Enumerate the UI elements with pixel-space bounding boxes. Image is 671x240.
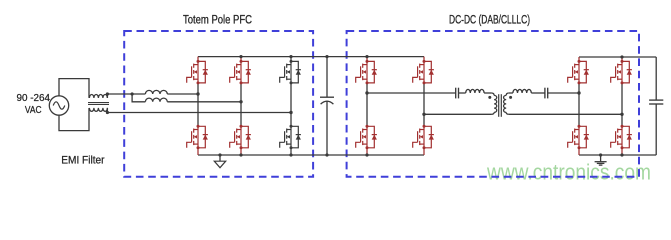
wire: HV DC+ bus — [198, 56, 424, 58]
wire: DC-link branch — [326, 57, 328, 155]
transistor Q7/Q8 (DAB primary leg1) low-side MOSFET — [356, 125, 377, 150]
capacitor C2 (resonant, primary) — [456, 88, 459, 99]
node: Q13/Q14 (secondary leg2) switch-node junction — [620, 113, 623, 116]
capacitor C1 (DC link) — [320, 97, 334, 104]
wire: Q11/Q12 (secondary leg1) drain stub — [578, 57, 580, 155]
transistor Q3/Q4 (PFC leg2) high-side MOSFET — [230, 60, 251, 85]
transistor Q9/Q10 (DAB primary leg2) high-side MOSFET — [413, 60, 434, 85]
Totem Pole PFC enclosure (dashed) — [124, 31, 313, 177]
wire: neutral line to PFC leg3 switch node — [107, 112, 291, 114]
transistor Q13/Q14 (secondary leg2) high-side MOSFET — [611, 60, 632, 85]
svg-text:Totem Pole PFC: Totem Pole PFC — [183, 12, 252, 26]
capacitor C3 (resonant, secondary) — [545, 88, 548, 99]
node: DC- bus junction DAB leg1 — [365, 153, 368, 156]
wire: line input to boost inductors — [107, 93, 145, 95]
common-mode choke core — [88, 103, 109, 105]
node: output DC+ junction leg2 — [620, 55, 623, 58]
svg-text:DC-DC (DAB/CLLLC): DC-DC (DAB/CLLLC) — [449, 12, 530, 26]
node: Q5/Q6 (PFC line leg) switch-node junction — [289, 111, 292, 114]
node: C1 bottom junction — [325, 153, 328, 156]
wire: Q1/Q2 (PFC leg1) drain stub — [197, 57, 199, 155]
transformer T1 core — [499, 94, 502, 117]
node: DC+ bus junction leg2 — [239, 55, 242, 58]
transistor Q3/Q4 (PFC leg2) low-side MOSFET — [230, 125, 251, 150]
node: choke top output — [106, 92, 109, 95]
wire: Q7/Q8 (DAB primary leg1) drain stub — [366, 57, 368, 155]
common-mode choke L1 top winding — [89, 94, 107, 98]
transistor Q9/Q10 (DAB primary leg2) low-side MOSFET — [413, 125, 434, 150]
wire: output DC+ bus — [579, 56, 656, 58]
svg-text:VAC: VAC — [25, 105, 42, 116]
transistor Q5/Q6 (PFC line leg) low-side MOSFET — [280, 125, 301, 150]
svg-text:90 -264: 90 -264 — [17, 93, 51, 104]
wire: Q13/Q14 (secondary leg2) drain stub — [621, 57, 623, 155]
ground (PFC DC- bus) — [214, 153, 225, 167]
node: C1 top junction — [325, 55, 328, 58]
node: Q3/Q4 (PFC leg2) switch-node junction — [239, 100, 242, 103]
wire: L4 to transformer — [484, 92, 492, 94]
node: Q7/Q8 (DAB primary leg1) switch-node junction — [365, 91, 368, 94]
wire: output capacitor branch — [655, 57, 657, 155]
node: DC- bus junction leg2 — [239, 153, 242, 156]
inductor L5 (resonant, secondary) — [513, 89, 531, 93]
wire: T1 to L5 — [509, 92, 513, 94]
wire: primary tank bottom — [424, 113, 492, 115]
transistor Q11/Q12 (secondary leg1) high-side MOSFET — [568, 60, 589, 85]
inductor L2 (boost, upper) — [145, 90, 167, 94]
node: Q11/Q12 (secondary leg1) switch-node junction — [577, 91, 580, 94]
node: Q1/Q2 (PFC leg1) switch-node junction — [196, 92, 199, 95]
ground (output, earth) — [595, 153, 607, 165]
node: T1 primary polarity dot — [488, 96, 491, 99]
wire: Q5/Q6 (PFC line leg) switch-node column — [290, 83, 292, 126]
wire: L2 to PFC leg1 switch node — [167, 93, 198, 95]
wire: Q1/Q2 (PFC leg1) switch-node column — [197, 83, 199, 126]
AC source V1 (90-264 VAC) — [49, 96, 68, 115]
svg-text:EMI Filter: EMI Filter — [61, 155, 105, 167]
common-mode choke L1 bottom winding — [89, 108, 107, 112]
wire: Q3/Q4 (PFC leg2) drain stub — [240, 57, 242, 155]
svg-text:www.cntronics.com: www.cntronics.com — [486, 159, 651, 184]
wire: AC input loop (EMI filter) — [59, 79, 89, 131]
inductor L3 (boost, lower) — [145, 98, 167, 102]
inductor L4 (resonant, primary) — [466, 89, 484, 93]
node: boost inductor branch — [131, 92, 134, 95]
transformer T1 primary winding — [492, 93, 495, 95]
transistor Q11/Q12 (secondary leg1) low-side MOSFET — [568, 125, 589, 150]
node: DC- bus junction leg3 — [289, 153, 292, 156]
wire: Q11/Q12 (secondary leg1) switch-node column — [578, 83, 580, 126]
DC-DC enclosure (dashed) — [347, 31, 639, 177]
node: choke bottom output — [106, 111, 109, 114]
transistor Q5/Q6 (PFC line leg) high-side MOSFET — [280, 60, 301, 85]
node: DC+ bus junction leg3 — [289, 55, 292, 58]
wire: HV DC- bus — [198, 154, 424, 156]
wire: Q9/Q10 (DAB primary leg2) drain stub — [423, 57, 425, 155]
wire: Q13/Q14 (secondary leg2) switch-node column — [621, 83, 623, 126]
wire: L5 to C3 — [531, 92, 545, 94]
wire: Q5/Q6 (PFC line leg) drain stub — [290, 57, 292, 155]
wire: Q7/Q8 (DAB primary leg1) switch-node column — [366, 83, 368, 126]
wire: primary tank top — [367, 92, 466, 94]
wire: secondary tank bottom — [509, 113, 622, 115]
node: DC+ bus junction DAB leg1 — [365, 55, 368, 58]
wire: Q3/Q4 (PFC leg2) switch-node column — [240, 83, 242, 126]
node: T1 secondary polarity dot — [509, 96, 512, 99]
capacitor C4 (output) — [649, 100, 663, 104]
transistor Q13/Q14 (secondary leg2) low-side MOSFET — [611, 125, 632, 150]
wire: Q9/Q10 (DAB primary leg2) switch-node column — [423, 83, 425, 126]
transformer T1 secondary winding — [506, 93, 509, 95]
node: output DC- junction leg2 — [620, 153, 623, 156]
transistor Q7/Q8 (DAB primary leg1) high-side MOSFET — [356, 60, 377, 85]
transistor Q1/Q2 (PFC leg1) low-side MOSFET — [187, 125, 208, 150]
wire: output DC- bus — [579, 154, 656, 156]
wire: branch down to second inductor — [132, 94, 145, 102]
wire: L3 to PFC leg2 switch node — [167, 101, 241, 103]
transistor Q1/Q2 (PFC leg1) high-side MOSFET — [187, 60, 208, 85]
node: Q9/Q10 (DAB primary leg2) switch-node junction — [422, 113, 425, 116]
wire: C3 to secondary bridge leg1 — [548, 92, 579, 94]
